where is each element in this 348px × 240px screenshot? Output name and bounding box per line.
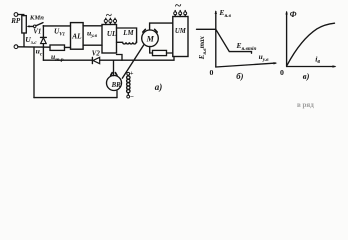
motor brushes	[143, 29, 146, 32]
svg-text:AL: AL	[71, 32, 82, 41]
graph v x-axis	[287, 66, 335, 68]
wire resistor to AL lower input	[65, 46, 71, 48]
svg-text:UV1: UV1	[54, 27, 65, 37]
terminal top-left supply	[14, 13, 18, 17]
svg-text:в ряд: в ряд	[297, 101, 314, 109]
svg-text:Eя.вmin: Eя.вmin	[236, 41, 257, 52]
amplifier AL box	[71, 23, 84, 50]
svg-text:V1: V1	[33, 29, 41, 36]
wire motor bottom	[150, 47, 153, 53]
resistor armature	[153, 50, 167, 55]
svg-text:−: −	[130, 93, 134, 101]
wire AL output top	[83, 25, 102, 27]
svg-text:~: ~	[175, 0, 182, 12]
svg-text:~: ~	[106, 10, 112, 22]
BR brushes	[111, 73, 113, 76]
svg-text:Uз.с: Uз.с	[25, 35, 37, 46]
svg-text:0: 0	[210, 68, 214, 77]
mechanical link BR to M	[122, 44, 144, 78]
svg-text:в): в)	[303, 71, 310, 81]
svg-text:iв: iв	[315, 54, 320, 65]
bleed-through smudge	[297, 101, 314, 109]
switch KMp blade	[36, 23, 43, 26]
field winding LM	[117, 42, 137, 44]
svg-text:а): а)	[155, 82, 163, 92]
wire V2 to UM bottom	[100, 57, 174, 61]
wire bottom rail	[34, 97, 117, 99]
svg-text:+: +	[130, 70, 134, 77]
diode V1	[42, 26, 44, 38]
resistor RP (potentiometer body)	[22, 16, 27, 33]
V2 rail wire	[43, 59, 92, 61]
converter UM box	[173, 17, 188, 57]
wire junction to bottom rail	[33, 47, 35, 98]
graph b max level tick	[197, 28, 216, 30]
wire rail lower input	[18, 46, 50, 48]
terminal bottom-left supply	[14, 45, 18, 49]
resistor u_t.r	[50, 45, 65, 50]
wire UL bottom to rail	[117, 55, 123, 61]
motor M	[142, 30, 159, 47]
field circuit wire UL to LM	[117, 28, 137, 42]
svg-text:0: 0	[280, 68, 284, 77]
wire BR bottom lead	[116, 91, 118, 98]
svg-text:Ф: Ф	[290, 10, 297, 19]
graph b y-axis	[215, 12, 217, 68]
svg-text:Eя.в: Eя.в	[218, 8, 231, 19]
graph v magnetization curve	[287, 23, 335, 65]
graph v y-axis	[286, 12, 288, 67]
svg-text:Eя.вmax: Eя.вmax	[199, 36, 208, 61]
terminal plus	[127, 72, 130, 75]
svg-text:uу.в: uу.в	[87, 28, 98, 39]
wire rail down to BR	[113, 60, 115, 75]
switch KMp contact circle	[33, 25, 36, 28]
svg-text:б): б)	[236, 71, 243, 81]
wire top input to AL	[43, 25, 70, 27]
converter UL box	[102, 25, 117, 54]
terminal minus	[127, 95, 130, 98]
svg-text:M: M	[146, 35, 155, 44]
wiper arrow of RP	[29, 25, 34, 27]
svg-text:UL: UL	[107, 30, 117, 38]
diode V2	[91, 57, 93, 63]
wire RP bottom	[23, 33, 25, 47]
svg-text:КМп: КМп	[29, 14, 44, 21]
graph b x-axis	[216, 63, 276, 67]
wire diode node down to V2 rail	[42, 47, 44, 60]
svg-text:RP: RP	[10, 17, 21, 25]
UL supply terminals	[105, 22, 107, 24]
svg-text:V2: V2	[92, 51, 101, 58]
node junction above diode V1	[43, 25, 45, 27]
svg-text:uу.в: uу.в	[259, 52, 270, 63]
wire resistor to UM	[167, 52, 173, 54]
wire motor top to UM	[150, 23, 173, 30]
coil winding tach load	[127, 74, 129, 77]
svg-text:uс: uс	[36, 47, 43, 58]
graph b curve	[216, 29, 252, 53]
UM supply terminals	[174, 15, 176, 17]
tachogenerator BR	[107, 76, 122, 91]
wire AL output bottom	[83, 44, 102, 46]
wire	[18, 15, 24, 16]
svg-text:UM: UM	[175, 28, 187, 35]
svg-text:BR: BR	[111, 82, 122, 89]
svg-text:LM: LM	[122, 30, 134, 37]
svg-text:uт.р: uт.р	[51, 52, 64, 63]
